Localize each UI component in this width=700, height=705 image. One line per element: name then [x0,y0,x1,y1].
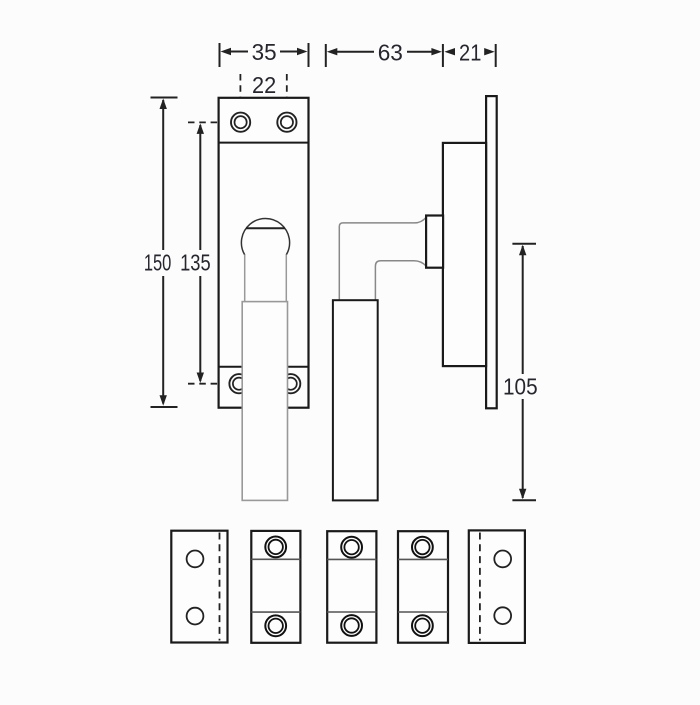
handle grip (front) [242,302,287,501]
handle grip (side) [333,300,378,500]
keep plate C [327,531,376,643]
dimension 150 (overall plate height) [151,98,178,408]
dimension 135 (hole centres vertical) [199,125,201,381]
dimension 105 (grip length) [512,244,536,501]
plate top section line [219,142,309,144]
handle stem lines (front) [244,255,246,302]
screw hole bottom-left [229,374,248,393]
hole left plate bottom [187,608,204,625]
keep C screw top [341,537,362,558]
svg-text:105: 105 [503,374,538,400]
plate bottom section line [219,366,309,368]
keep plate D [398,531,448,643]
handle hub [426,216,443,268]
keep B screw top [265,537,286,558]
handle body block side [443,143,486,366]
dimension 21 (plate depth) [495,44,497,67]
dashed extension line top [188,121,239,123]
keep B screw bottom [265,615,286,636]
svg-text:21: 21 [459,40,481,66]
keep C screw bottom [341,615,362,636]
packing plate right [469,530,525,643]
fold dashed line right plate [479,533,481,641]
keep D screw bottom [412,615,433,636]
dimension 63 (handle projection) [326,44,443,67]
svg-text:63: 63 [378,40,403,66]
knuckle chord line [246,227,285,229]
svg-text:35: 35 [252,39,277,65]
handle neck outer profile [339,217,426,301]
dashed extension line bottom [188,383,237,385]
keep D screw top [412,537,433,558]
svg-text:150: 150 [144,249,172,275]
hole right plate bottom [494,607,511,624]
hole right plate top [494,551,511,568]
texts 150 135 with white backing [142,250,220,276]
screw hole top-left [231,113,250,132]
dimension 35 (backplate width) [220,43,309,67]
svg-text:135: 135 [180,249,211,275]
screw hole top-right [277,113,296,132]
svg-text:22: 22 [252,72,276,98]
mounting plate edge (thin, 21 deep) [486,96,497,408]
hole left plate top [187,551,204,568]
backplate front [219,98,309,408]
screw hole bottom-right [281,374,300,393]
keep plate B [251,531,300,643]
handle knuckle arc (front) [241,219,289,255]
fold dashed line left plate [219,533,221,641]
packing plate left [171,531,227,643]
handle neck inner profile [375,261,426,301]
